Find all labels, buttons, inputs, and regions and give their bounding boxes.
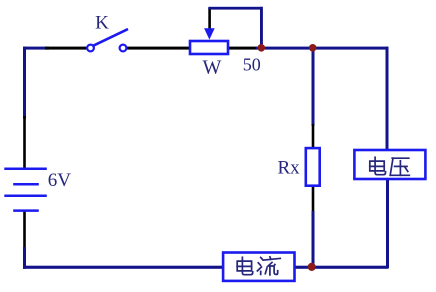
- potentiometer wiper arrow: [204, 28, 215, 39]
- wire bottom-left vertical (navy): [23, 247, 26, 269]
- svg-text:Rx: Rx: [278, 158, 301, 179]
- label 电流 (current) drawn strokes: [237, 257, 280, 275]
- svg-text:W: W: [203, 57, 222, 79]
- voltmeter box: [354, 150, 425, 179]
- node C junction dot: [308, 263, 316, 271]
- wire left vertical upper (navy): [23, 47, 26, 119]
- battery 6V: [4, 169, 47, 211]
- label 电压 (voltage) drawn strokes: [370, 157, 410, 175]
- wire Rx down to node C (black then navy): [312, 186, 315, 213]
- wire battery to bottom (black): [23, 210, 26, 250]
- wire node B down to Rx (navy then black): [312, 48, 315, 126]
- svg-text:K: K: [95, 13, 109, 34]
- potentiometer W body: [190, 41, 228, 54]
- wire wiper loop top horizontal (navy): [208, 7, 262, 10]
- switch K: [87, 29, 128, 51]
- node A junction dot: [258, 44, 266, 52]
- svg-text:50: 50: [243, 55, 261, 75]
- svg-text:6V: 6V: [48, 170, 72, 191]
- wire left vertical to battery (black): [23, 116, 26, 169]
- 电: [374, 157, 376, 170]
- wire top-left horizontal (navy part): [23, 47, 49, 50]
- wire switch to potentiometer (black): [127, 47, 190, 50]
- ammeter box: [223, 253, 294, 281]
- node B junction dot: [309, 44, 317, 52]
- resistor Rx body: [306, 148, 320, 186]
- wire node A to node B (navy): [256, 47, 388, 50]
- wire bottom horizontal to ammeter (navy): [23, 266, 223, 269]
- wire ammeter to node C (navy): [295, 266, 389, 269]
- wire wiper loop right vertical down to node A (navy): [260, 7, 263, 48]
- wire potentiometer to node A (black): [229, 47, 257, 50]
- wire top horizontal black to switch: [45, 47, 87, 50]
- wire right vertical top (navy): [386, 47, 389, 151]
- wire right vertical bottom voltmeter to bottom wire (navy): [386, 178, 389, 268]
- 压: [392, 157, 409, 159]
- wire wiper stem vertical (black): [208, 8, 211, 30]
- 电: [241, 257, 243, 270]
- 流: [261, 257, 263, 259]
